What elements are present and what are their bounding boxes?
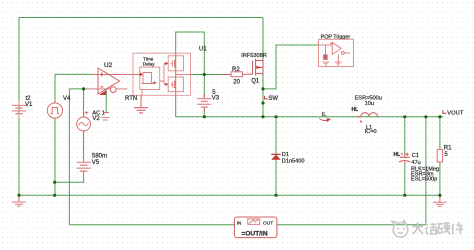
svg-text:20: 20	[233, 79, 240, 85]
time delay waveform glyph	[142, 73, 154, 84]
svg-text:U2: U2	[104, 62, 113, 69]
node VOUT marker	[443, 110, 447, 114]
driver box lower	[168, 77, 183, 92]
driver box upper	[168, 56, 183, 71]
svg-text:R2: R2	[232, 67, 240, 73]
wire U1 bottom pin to SW bus and bus to VOUT	[176, 95, 443, 117]
wire OUT/IN block to VOUT node	[277, 117, 426, 225]
opamp reference bar	[103, 112, 109, 114]
source V4	[47, 101, 62, 120]
wire opamp plus input from V4	[55, 74, 92, 102]
svg-text:=OUT/IN: =OUT/IN	[241, 230, 267, 237]
battery V1	[12, 101, 26, 119]
svg-text:D1: D1	[282, 152, 289, 158]
svg-text:Time: Time	[143, 56, 153, 61]
svg-text:V1: V1	[25, 102, 33, 108]
svg-text:IC=0: IC=0	[365, 129, 377, 135]
wire feedback to OUT/IN block	[69, 224, 234, 226]
svg-text:580m: 580m	[92, 153, 107, 159]
wire opamp reference stub	[105, 90, 107, 113]
svg-text:VOUT: VOUT	[447, 111, 464, 117]
svg-text:OUT: OUT	[263, 220, 273, 226]
V2 polarity dashes	[101, 118, 110, 120]
wire V3 bottom to SW bus	[203, 109, 205, 117]
time delay sub-box	[140, 67, 160, 89]
svg-text:HL: HL	[352, 107, 359, 113]
inductor L1	[358, 116, 361, 118]
sub box bottom link	[141, 90, 143, 96]
driver mosfet glyphs	[171, 60, 176, 89]
svg-text:V4: V4	[63, 96, 71, 102]
svg-text:HL: HL	[394, 152, 401, 158]
wire diode branch	[275, 117, 277, 195]
svg-text:D1n5400: D1n5400	[282, 158, 305, 164]
svg-text:ESL=500p: ESL=500p	[411, 177, 437, 183]
wire V1 column	[18, 18, 20, 196]
wire U1 top pin jog to V3 column	[176, 32, 205, 98]
svg-text:47u: 47u	[411, 160, 420, 166]
wire opamp minus input from V2 and feedback column	[69, 89, 84, 225]
svg-text:IL: IL	[322, 112, 327, 118]
wire top bus V1+ to Q1 source	[19, 17, 263, 19]
wire C1 column	[404, 117, 406, 195]
U1 block outer box	[133, 53, 191, 95]
capacitor C1	[404, 154, 406, 165]
RTN ground	[140, 95, 142, 107]
source V2 AC	[77, 111, 91, 133]
battery V3	[197, 94, 211, 112]
wire U1 output to R2	[191, 74, 232, 76]
resistor R2	[222, 73, 247, 75]
OUT/IN measurement block	[234, 217, 277, 238]
svg-text:IRF5308R: IRF5308R	[241, 53, 266, 59]
svg-text:SW: SW	[268, 96, 278, 102]
wire Q1 column from top bus	[262, 18, 264, 61]
ground right	[439, 195, 441, 202]
wire ground bus bottom	[19, 194, 439, 196]
diode D1	[271, 153, 280, 155]
watermark text da hua ying jian	[413, 222, 464, 234]
svg-text:IN: IN	[237, 220, 242, 226]
svg-text:Q1: Q1	[251, 78, 260, 84]
driver output link to box edge	[176, 74, 191, 76]
node SW marker	[265, 96, 268, 100]
time delay output net to drivers	[160, 64, 168, 85]
ground left	[18, 195, 20, 202]
svg-text:V2: V2	[92, 116, 100, 122]
resistor R1	[437, 149, 442, 162]
opamp ramp glyph	[99, 90, 106, 95]
wire Q1 drain to SW junction	[262, 74, 264, 117]
watermark logo	[392, 220, 408, 237]
svg-text:V3: V3	[212, 95, 220, 101]
wire SW to POP trigger	[263, 45, 319, 89]
driver chain vertical	[175, 53, 177, 95]
op-amp U2	[84, 68, 140, 94]
svg-text:C1: C1	[412, 153, 419, 159]
wire R1 column	[439, 117, 441, 195]
wire V2 V5 column	[83, 89, 85, 117]
svg-text:Delay: Delay	[143, 62, 155, 67]
svg-text:10u: 10u	[365, 101, 374, 107]
battery V5	[77, 157, 91, 176]
svg-text:R1: R1	[444, 145, 452, 151]
svg-text:U1: U1	[199, 46, 207, 52]
svg-text:RTN: RTN	[125, 96, 137, 102]
wire V4 column down to ground bus	[54, 118, 56, 195]
time delay input arrow	[140, 73, 143, 77]
svg-text:V5: V5	[92, 160, 100, 166]
